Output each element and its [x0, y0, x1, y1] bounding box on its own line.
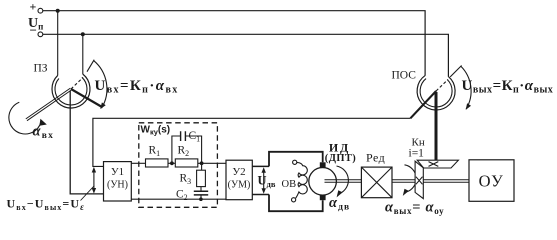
- arrow U_dv double: [263, 170, 265, 192]
- resistor R1: [146, 159, 169, 167]
- terminal minus: [38, 32, 43, 37]
- angle marker U_vyx tick: [450, 66, 461, 77]
- OV coil: [296, 162, 308, 198]
- resistor R3: [197, 170, 206, 186]
- node B: [200, 161, 204, 165]
- wire: feedback POS wiper to U1: [93, 118, 411, 166]
- svg-text:(УМ): (УМ): [228, 180, 251, 191]
- POS wiper dashed: [436, 80, 448, 92]
- wire: U2 top out: [252, 165, 269, 167]
- capacitor C2: [194, 191, 208, 195]
- wire: PZ wiper output to U1: [70, 91, 103, 194]
- node C2-rail: [199, 197, 203, 201]
- shaft reducer to OU: [392, 180, 469, 183]
- terminal plus: [38, 8, 43, 13]
- OV terminal bottom: [292, 198, 296, 202]
- resistor R2: [175, 159, 198, 167]
- svg-text:ПЗ: ПЗ: [34, 63, 48, 75]
- arrow alpha-vx: [9, 102, 41, 134]
- POS shaft: [435, 92, 438, 160]
- motor ID DPT circle: [309, 168, 337, 196]
- wire: armature loop: [269, 152, 323, 211]
- angle marker U_vx tick: [87, 60, 94, 72]
- arrow alpha-vyx: [405, 165, 417, 192]
- leader line U_eps: [81, 186, 95, 201]
- angle marker U_vyx arc: [461, 66, 471, 109]
- bevel gear vertical part: [415, 161, 423, 198]
- svg-text:Ред: Ред: [366, 151, 385, 165]
- capacitor C1: [181, 131, 186, 141]
- svg-text:+: +: [30, 0, 37, 14]
- potentiometer PZ body: [52, 74, 90, 108]
- wire: +rail to POS: [43, 11, 425, 76]
- POS wiper arm: [410, 91, 436, 118]
- wire: R3 branch: [200, 163, 203, 199]
- brush bottom: [320, 195, 326, 201]
- wire: R2 out to U2: [198, 162, 226, 164]
- arrow alpha-dv: [337, 166, 349, 194]
- shaft motor to reducer: [325, 180, 362, 183]
- wire: C1 branch: [172, 136, 202, 163]
- wire: U1 to R1: [131, 162, 145, 164]
- actuator OU box: [469, 160, 514, 202]
- brush top: [320, 162, 326, 168]
- arrow U_eps double: [93, 170, 95, 192]
- node: junction on +rail: [56, 9, 60, 13]
- bevel gear horizontal part: [417, 160, 458, 168]
- svg-text:ПОС: ПОС: [392, 70, 417, 82]
- reducer Red box: [361, 167, 392, 198]
- PZ shaft: [26, 88, 72, 121]
- svg-text:(ДПТ): (ДПТ): [325, 153, 356, 164]
- amplifier U1 box: [104, 162, 132, 201]
- node A: [170, 161, 174, 165]
- potentiometer POS body: [417, 75, 455, 110]
- svg-text:ОВ: ОВ: [282, 179, 297, 190]
- amplifier U2 box: [226, 160, 252, 200]
- svg-text:У1: У1: [111, 166, 124, 178]
- svg-text:У2: У2: [232, 166, 245, 178]
- OV terminal top: [293, 160, 297, 164]
- wire: R1 to R2: [168, 162, 175, 164]
- dashed box Wku: [139, 123, 218, 208]
- angle marker U_vx arc: [94, 60, 107, 108]
- wire: -rail to POS: [43, 34, 448, 77]
- svg-text:(УН): (УН): [107, 180, 128, 191]
- wire: U2 bottom out: [252, 194, 269, 196]
- PZ wiper arm: [71, 89, 102, 107]
- svg-text:i=1: i=1: [409, 148, 425, 160]
- wire: bottom rail U1 to U2: [131, 198, 226, 200]
- PZ wiper dashed: [71, 78, 83, 90]
- node: junction on -rail: [81, 32, 85, 36]
- svg-text:ОУ: ОУ: [479, 172, 505, 191]
- wire: drop to PZ left: [57, 11, 59, 76]
- wire: drop to PZ right: [82, 34, 84, 74]
